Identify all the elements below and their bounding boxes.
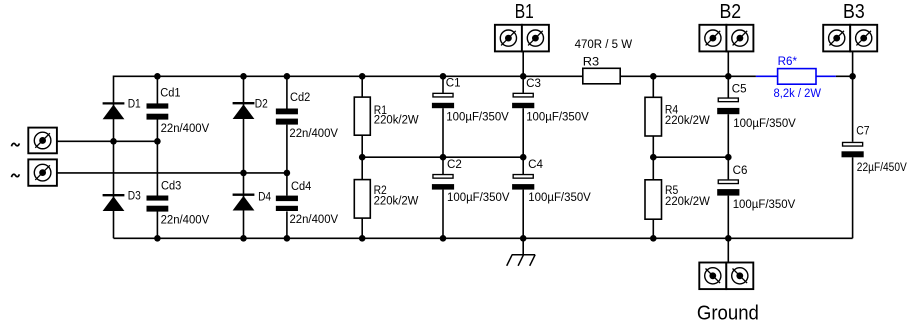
capacitor C7: [842, 126, 907, 175]
svg-text:R5: R5: [665, 185, 678, 197]
capacitor C5: [717, 84, 796, 130]
wire R6 to B3: [836, 75, 853, 77]
node top bus junctions: [154, 73, 856, 80]
svg-text:22n/400V: 22n/400V: [289, 128, 338, 140]
node middle left junctions: [359, 154, 527, 161]
svg-text:Cd1: Cd1: [160, 88, 180, 100]
svg-text:100µF/350V: 100µF/350V: [733, 199, 796, 211]
svg-text:C3: C3: [526, 78, 541, 90]
diode D2: [233, 99, 268, 119]
svg-text:22n/400V: 22n/400V: [290, 214, 339, 226]
diode D1: [103, 99, 141, 120]
wire R4/R5 column: [652, 76, 654, 238]
svg-text:D3: D3: [128, 191, 141, 203]
terminal AC1: [12, 128, 57, 154]
svg-text:22n/400V: 22n/400V: [161, 215, 210, 227]
node middle right junctions: [650, 154, 732, 161]
capacitor Cd2: [276, 92, 338, 140]
wire B2/C5/C6/Ground column: [727, 51, 729, 262]
svg-text:8,2k / 2W: 8,2k / 2W: [774, 88, 822, 100]
terminal B2: [699, 0, 753, 51]
terminal B3: [823, 0, 877, 51]
wire Cd2/Cd4 column: [286, 76, 288, 238]
resistor R4: [645, 97, 710, 136]
svg-text:220k/2W: 220k/2W: [665, 196, 710, 208]
wire B1/C3/C4/ground column: [522, 51, 524, 255]
terminal Ground: [697, 263, 759, 325]
svg-text:100µF/350V: 100µF/350V: [446, 111, 509, 123]
wire Cd1/Cd3 column: [156, 76, 158, 238]
node AC2 junctions: [240, 170, 290, 177]
wire C1/C2 column: [442, 76, 444, 238]
capacitor Cd1: [147, 88, 210, 135]
wire AC input line 1: [57, 140, 157, 142]
wire middle line left: [362, 156, 523, 158]
svg-text:C7: C7: [856, 126, 869, 138]
svg-text:100µF/350V: 100µF/350V: [447, 192, 510, 204]
resistor R3: [575, 39, 633, 84]
svg-text:220k/2W: 220k/2W: [374, 196, 419, 208]
capacitor C3: [512, 78, 589, 124]
svg-text:D4: D4: [258, 191, 272, 203]
capacitor C2: [432, 159, 510, 204]
resistor R6: [774, 56, 822, 100]
capacitor C6: [717, 165, 795, 211]
svg-text:C2: C2: [447, 159, 462, 171]
svg-text:Cd4: Cd4: [291, 181, 312, 193]
terminal AC2: [12, 159, 57, 185]
svg-text:B1: B1: [515, 0, 534, 23]
capacitor C1: [432, 77, 509, 123]
svg-text:D2: D2: [255, 99, 268, 111]
wire top bus and left rail: [114, 76, 756, 238]
diode D3: [103, 191, 141, 211]
diode D4: [233, 191, 272, 210]
svg-text:C1: C1: [446, 77, 461, 89]
svg-text:R6*: R6*: [778, 56, 798, 68]
svg-text:C5: C5: [732, 84, 747, 96]
ground: [507, 255, 536, 266]
wire R6 blue right: [816, 75, 836, 77]
capacitor Cd3: [147, 181, 210, 227]
wire middle line right: [653, 156, 728, 158]
wire R6 blue left: [756, 75, 778, 77]
wire bottom bus: [114, 237, 853, 239]
svg-text:B2: B2: [719, 0, 741, 23]
svg-text:100µF/350V: 100µF/350V: [526, 111, 589, 123]
wire AC input line 2: [57, 172, 287, 174]
resistor R2: [354, 180, 418, 219]
node bottom bus junctions: [154, 235, 732, 242]
wire B3/C7 column: [852, 51, 854, 238]
svg-text:100µF/350V: 100µF/350V: [528, 192, 591, 204]
svg-text:22µF/450V: 22µF/450V: [857, 162, 907, 174]
svg-text:B3: B3: [843, 0, 865, 23]
svg-text:22n/400V: 22n/400V: [161, 123, 210, 135]
svg-text:R3: R3: [583, 56, 599, 68]
svg-text:C6: C6: [733, 165, 748, 177]
svg-text:Ground: Ground: [697, 301, 759, 324]
capacitor Cd4: [276, 181, 339, 226]
svg-text:470R / 5 W: 470R / 5 W: [575, 39, 633, 51]
wire R1/R2 column: [361, 76, 363, 238]
wire D2/D4 column: [243, 76, 245, 238]
resistor R1: [354, 97, 418, 135]
svg-text:220k/2W: 220k/2W: [374, 115, 419, 127]
node AC1 junctions: [110, 138, 161, 145]
capacitor C4: [512, 159, 591, 204]
terminal B1: [495, 0, 549, 51]
svg-text:C4: C4: [528, 159, 543, 171]
resistor R5: [645, 180, 710, 219]
svg-text:220k/2W: 220k/2W: [665, 115, 710, 127]
svg-text:D1: D1: [128, 99, 141, 111]
svg-text:Cd2: Cd2: [290, 92, 310, 104]
svg-text:100µF/350V: 100µF/350V: [733, 118, 796, 130]
svg-text:Cd3: Cd3: [161, 181, 181, 193]
